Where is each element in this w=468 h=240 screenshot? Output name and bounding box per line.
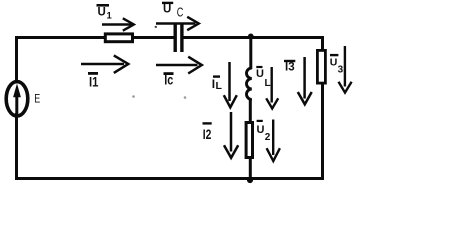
arrow IL xyxy=(224,62,237,107)
svg-text:U: U xyxy=(98,6,106,18)
svg-text:U: U xyxy=(256,68,264,80)
label U1 xyxy=(97,5,113,21)
wire top (left of capacitor) xyxy=(15,36,175,39)
node top junction xyxy=(248,34,254,40)
arrow I3 xyxy=(298,57,312,104)
svg-text:2: 2 xyxy=(265,132,271,143)
svg-text:U: U xyxy=(163,4,171,16)
capacitor C plates xyxy=(175,24,182,52)
arrow UC xyxy=(156,17,199,30)
wire top (right of capacitor) xyxy=(182,36,324,39)
arrow Ic xyxy=(156,57,202,74)
stray ink marks xyxy=(132,26,186,99)
wire middle branch lower xyxy=(249,99,252,180)
svg-text:E: E xyxy=(34,93,40,105)
svg-text:Ic: Ic xyxy=(164,73,173,88)
wire right xyxy=(321,36,324,180)
wire left lower xyxy=(15,113,18,180)
arrow I1 xyxy=(81,55,128,73)
source E arrow xyxy=(13,84,21,115)
svg-text:I2: I2 xyxy=(203,126,212,142)
arrow U3 xyxy=(339,46,352,93)
resistor R3 xyxy=(317,50,325,83)
arrow UL xyxy=(266,67,278,109)
label Ic xyxy=(164,73,174,88)
source E circle xyxy=(6,82,28,116)
label U3 xyxy=(330,55,344,75)
svg-text:I3: I3 xyxy=(285,62,295,74)
inductor L xyxy=(246,68,251,100)
wire middle branch upper xyxy=(249,36,252,69)
arrow I2 xyxy=(224,112,238,158)
label I1 xyxy=(88,73,99,89)
svg-text:L: L xyxy=(216,80,223,92)
svg-text:U: U xyxy=(330,57,338,69)
wire left upper xyxy=(15,36,18,81)
arrow U2 xyxy=(267,120,280,162)
label I2 xyxy=(203,123,212,142)
label UL xyxy=(256,67,271,89)
node bottom junction xyxy=(247,177,253,183)
resistor R2 xyxy=(246,123,252,158)
label UC xyxy=(162,3,183,20)
svg-text:L: L xyxy=(265,78,271,89)
label I3 xyxy=(284,61,295,74)
svg-text:1: 1 xyxy=(107,11,113,22)
wire bottom xyxy=(15,177,324,180)
arrow U1 xyxy=(102,18,134,30)
label IL xyxy=(212,77,223,92)
resistor R1 xyxy=(105,34,132,42)
svg-text:C: C xyxy=(177,6,184,20)
svg-text:U: U xyxy=(257,124,265,136)
svg-text:I1: I1 xyxy=(89,74,99,89)
label U2 xyxy=(257,121,271,143)
svg-text:3: 3 xyxy=(338,64,344,75)
